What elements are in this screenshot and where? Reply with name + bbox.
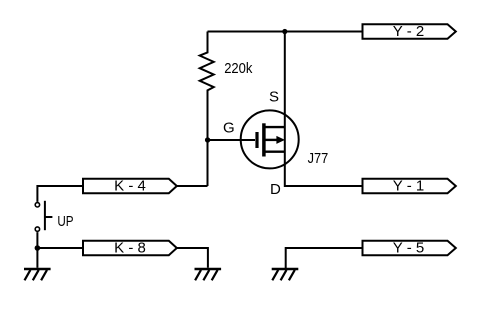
svg-text:K - 8: K - 8	[114, 240, 146, 257]
svg-text:UP: UP	[57, 213, 73, 230]
svg-text:Y - 1: Y - 1	[393, 178, 424, 195]
svg-text:G: G	[223, 120, 235, 137]
svg-text:Y - 2: Y - 2	[393, 23, 424, 40]
svg-text:K - 4: K - 4	[114, 178, 146, 195]
svg-text:S: S	[269, 89, 279, 106]
svg-text:Y - 5: Y - 5	[393, 240, 424, 257]
svg-text:D: D	[270, 181, 281, 198]
svg-text:J77: J77	[308, 150, 329, 167]
svg-text:220k: 220k	[224, 60, 253, 77]
